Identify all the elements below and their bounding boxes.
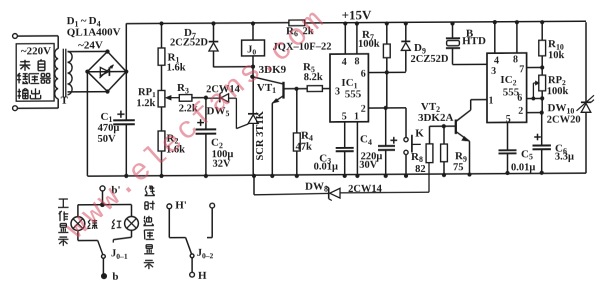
- svg-text:3DK2A: 3DK2A: [418, 112, 453, 124]
- svg-text:QL1A400V: QL1A400V: [67, 26, 121, 38]
- svg-text:8: 8: [355, 56, 360, 67]
- svg-text:100k: 100k: [547, 86, 569, 97]
- svg-text:50V: 50V: [97, 134, 115, 145]
- svg-text:~24V: ~24V: [78, 40, 103, 52]
- svg-text:1.6k: 1.6k: [167, 63, 186, 74]
- svg-text:30V: 30V: [359, 160, 377, 171]
- svg-text:3.3μ: 3.3μ: [555, 152, 574, 163]
- svg-text:32V: 32V: [212, 158, 230, 169]
- svg-text:K: K: [415, 127, 424, 139]
- svg-text:2CW14: 2CW14: [348, 184, 383, 195]
- svg-text:H: H: [198, 270, 207, 282]
- svg-text:2CW20: 2CW20: [547, 114, 581, 125]
- svg-text:100k: 100k: [358, 39, 380, 50]
- svg-text:82: 82: [415, 164, 425, 175]
- svg-text:5: 5: [342, 111, 347, 122]
- svg-text:0.01μ: 0.01μ: [314, 161, 338, 172]
- svg-text:4: 4: [342, 57, 347, 68]
- svg-text:0.01μ: 0.01μ: [511, 162, 535, 173]
- svg-text:3: 3: [491, 66, 496, 77]
- svg-text:7: 7: [519, 64, 524, 75]
- svg-text:1.2k: 1.2k: [136, 98, 155, 109]
- svg-text:1: 1: [354, 111, 359, 122]
- svg-text:8: 8: [513, 54, 518, 65]
- svg-text:1: 1: [489, 95, 494, 106]
- svg-text:T: T: [61, 94, 69, 106]
- svg-text:555: 555: [345, 88, 362, 100]
- svg-text:75: 75: [453, 162, 463, 173]
- svg-text:H': H': [175, 199, 187, 211]
- svg-text:47k: 47k: [296, 142, 312, 153]
- svg-text:b: b: [112, 271, 118, 283]
- svg-text:4: 4: [494, 55, 499, 66]
- svg-text:2CZ52D: 2CZ52D: [411, 54, 449, 65]
- svg-text:2: 2: [518, 106, 523, 117]
- svg-text:470μ: 470μ: [98, 123, 120, 134]
- svg-text:555: 555: [503, 86, 520, 98]
- svg-text:6: 6: [361, 69, 366, 80]
- svg-text:HTD: HTD: [462, 35, 486, 47]
- svg-text:10k: 10k: [548, 50, 564, 61]
- svg-text:2CZ52D: 2CZ52D: [170, 37, 208, 48]
- svg-text:+15V: +15V: [342, 8, 372, 23]
- svg-text:~220V: ~220V: [21, 45, 51, 57]
- svg-text:8.2k: 8.2k: [304, 72, 323, 83]
- svg-text:3: 3: [335, 86, 340, 97]
- svg-text:2: 2: [361, 104, 366, 115]
- svg-text:SCR 3T1K: SCR 3T1K: [255, 110, 266, 160]
